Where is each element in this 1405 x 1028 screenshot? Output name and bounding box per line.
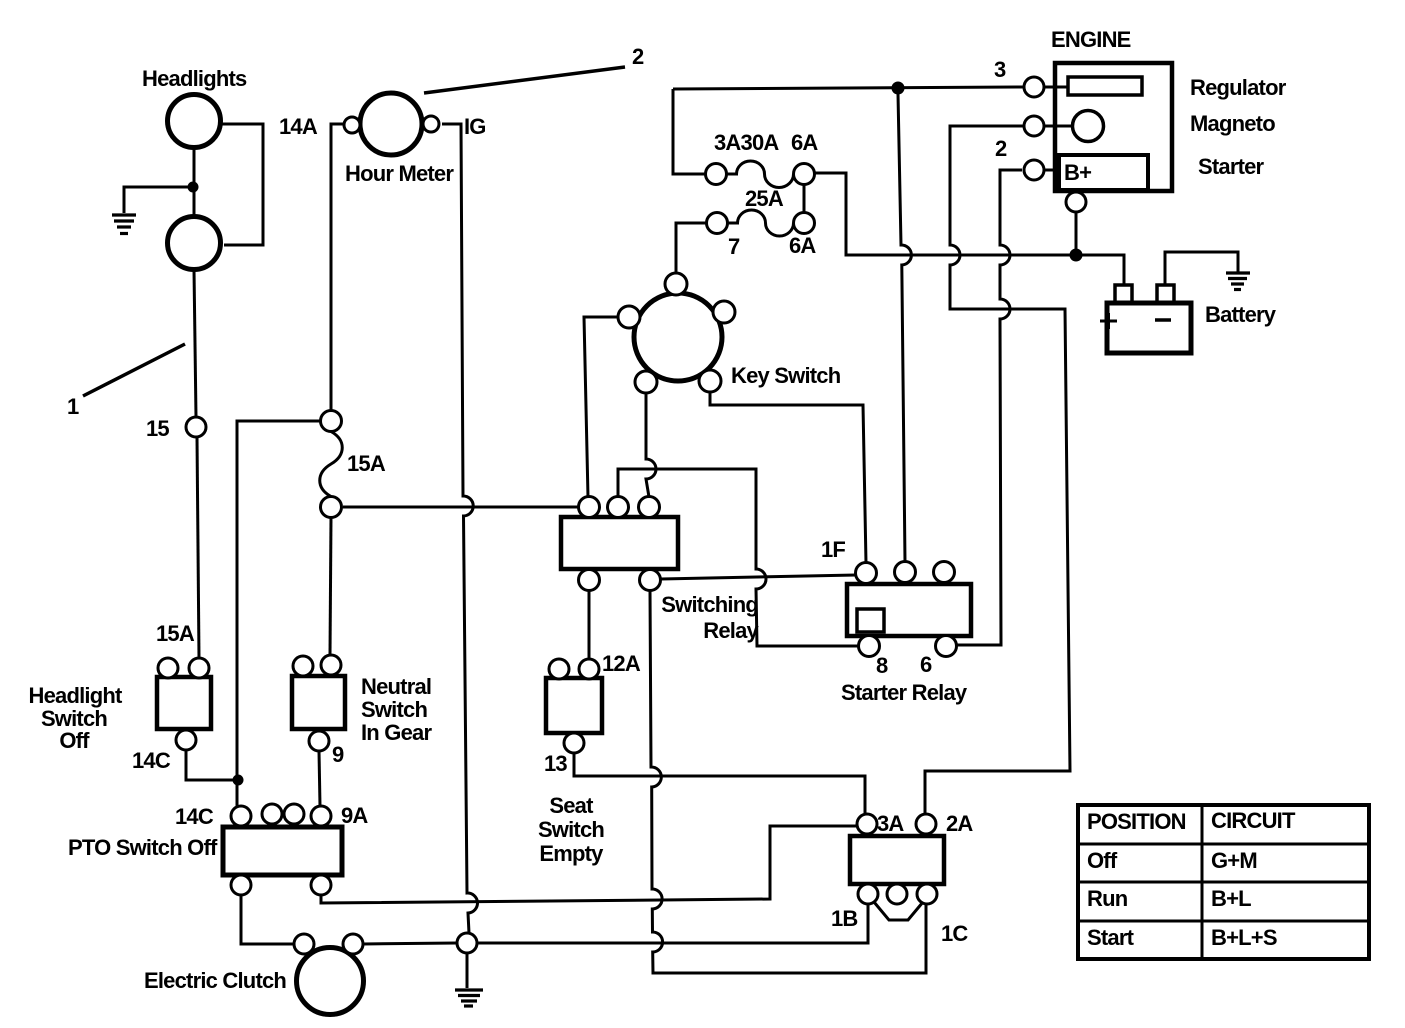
svg-text:6A: 6A <box>789 233 816 258</box>
hour meter M1 <box>360 93 422 155</box>
wire headlamp loop <box>222 124 263 245</box>
svg-text:ENGINE: ENGINE <box>1051 27 1131 52</box>
wire neutral 9 to PTO 9A <box>319 751 320 806</box>
node headlamp ground junction <box>188 182 199 193</box>
wire fuse 15A to neutral switch <box>330 517 331 655</box>
ground battery <box>1226 273 1250 290</box>
node bus 3 junction <box>892 82 905 95</box>
wire 15A fuse to switching relay <box>343 506 578 509</box>
wire key switch lower-left to switching relay (hops y469) <box>646 393 656 497</box>
svg-text:PTO Switch Off: PTO Switch Off <box>68 835 218 860</box>
svg-text:Electric Clutch: Electric Clutch <box>144 968 286 993</box>
svg-text:In Gear: In Gear <box>361 720 432 745</box>
svg-text:9A: 9A <box>341 803 368 828</box>
svg-text:7: 7 <box>728 234 740 259</box>
wire junction 3 to starter relay (hops y255) <box>898 94 911 562</box>
svg-text:Regulator: Regulator <box>1190 75 1287 100</box>
solenoid K3 <box>850 836 944 884</box>
svg-text:IG: IG <box>464 114 486 139</box>
svg-text:14C: 14C <box>132 748 171 773</box>
node 14C junction <box>233 775 244 786</box>
wire switching relay mid to starter relay 8 (hops y579) <box>618 469 859 646</box>
electric clutch <box>297 948 364 1015</box>
wire to ground <box>124 187 193 213</box>
svg-text:1C: 1C <box>941 921 968 946</box>
switching relay K1 <box>561 517 678 569</box>
svg-text:6A: 6A <box>791 130 818 155</box>
svg-text:2: 2 <box>995 136 1007 161</box>
wire magneto 2 to solenoid 2A (hops y255) <box>925 126 1070 814</box>
regulator rect <box>1068 77 1142 95</box>
wire hour meter 14A down <box>331 124 345 411</box>
engine box <box>1055 63 1172 191</box>
callout line 1 <box>83 344 185 396</box>
svg-text:3A: 3A <box>877 811 904 836</box>
svg-text:Relay: Relay <box>703 618 759 643</box>
svg-text:6: 6 <box>920 652 932 677</box>
seat switch <box>546 678 602 733</box>
table <box>1078 805 1369 959</box>
battery minus mark <box>1155 318 1171 322</box>
svg-text:Switch: Switch <box>361 697 427 722</box>
wire key switch lower-right to 1F <box>710 392 866 563</box>
svg-text:Starter: Starter <box>1198 154 1265 179</box>
svg-text:Off: Off <box>1087 848 1118 873</box>
solenoid V bracket <box>874 902 923 920</box>
svg-text:B+L+S: B+L+S <box>1211 925 1277 950</box>
battery box <box>1107 303 1191 353</box>
svg-text:Battery: Battery <box>1205 302 1277 327</box>
fuse F1 3A/30A <box>706 164 727 185</box>
svg-text:Seat: Seat <box>549 793 594 818</box>
svg-text:Off: Off <box>59 728 90 753</box>
wire 6A to battery bus y255 <box>815 173 1124 285</box>
svg-text:13: 13 <box>544 751 567 776</box>
engine terminals <box>1024 77 1044 97</box>
svg-text:Run: Run <box>1087 886 1128 911</box>
engine terminal stubs <box>1044 87 1072 170</box>
svg-text:Empty: Empty <box>539 841 604 866</box>
svg-text:15A: 15A <box>347 451 386 476</box>
wire seat 13 to solenoid 3A <box>574 753 865 814</box>
svg-text:15: 15 <box>146 416 169 441</box>
wire battery negative to ground <box>1165 252 1238 285</box>
PTO switch <box>223 827 342 875</box>
svg-text:G+M: G+M <box>1211 848 1257 873</box>
headlamp L1 <box>168 95 221 148</box>
wire node to ground <box>466 953 469 988</box>
wire clutch to ground node <box>363 943 457 944</box>
fuse F3 15A <box>321 411 342 432</box>
wire bus to engine terminal 3 <box>673 87 1024 89</box>
wire headlight switch 14C to junction <box>186 750 233 780</box>
svg-text:25A: 25A <box>745 186 784 211</box>
ground bottom center <box>455 990 483 1006</box>
wire IG line (hops y506 and y904) <box>442 124 478 933</box>
svg-text:2A: 2A <box>946 811 973 836</box>
node battery bus junction <box>1070 249 1083 262</box>
svg-text:CIRCUIT: CIRCUIT <box>1211 808 1296 833</box>
magneto circle <box>1073 111 1104 142</box>
wire engine bottom terminal to bus <box>1075 212 1078 252</box>
starter relay K2 <box>847 584 971 636</box>
svg-text:Starter Relay: Starter Relay <box>841 680 968 705</box>
svg-text:9: 9 <box>332 742 344 767</box>
wire switching relay BR down to 1C (hops y776 y899 y942) <box>650 590 926 973</box>
wire PTO BR to solenoid 3A (hopped by x468 x652) <box>321 826 857 903</box>
neutral switch <box>292 676 345 729</box>
wire key switch upper-left to switching relay <box>584 317 620 497</box>
wire fuse F2 left down to key switch <box>676 223 706 273</box>
wire 15A branch to PTO <box>237 421 322 806</box>
battery plus mark <box>1100 313 1117 329</box>
svg-text:Neutral: Neutral <box>361 674 431 699</box>
svg-text:POSITION: POSITION <box>1087 809 1186 834</box>
svg-text:Magneto: Magneto <box>1190 111 1275 136</box>
svg-text:Headlight: Headlight <box>28 683 122 708</box>
wire between headlamps <box>193 148 196 217</box>
svg-text:3A30A: 3A30A <box>714 130 779 155</box>
wire fuse interconnect 6A <box>803 185 806 213</box>
svg-text:Key Switch: Key Switch <box>731 363 841 388</box>
svg-text:1B: 1B <box>831 906 858 931</box>
wire PTO BL to clutch <box>241 895 294 944</box>
connector 15 <box>186 417 206 437</box>
headlamp L2 <box>168 217 221 270</box>
callout line 2 <box>424 67 625 93</box>
svg-text:14A: 14A <box>279 114 318 139</box>
fuse F2 25A <box>707 213 728 234</box>
svg-text:B+: B+ <box>1064 160 1091 185</box>
ground node connector <box>457 933 477 953</box>
key switch S1 <box>634 293 722 381</box>
svg-text:3: 3 <box>994 57 1006 82</box>
wire B+ to starter relay 6 (hops y255 and y309) <box>956 170 1022 645</box>
battery terminals <box>1115 285 1132 303</box>
svg-text:Headlights: Headlights <box>142 66 247 91</box>
wire fuse F1 left up to bus 3 <box>673 89 706 174</box>
svg-text:Switch: Switch <box>538 817 604 842</box>
svg-text:1: 1 <box>67 394 79 419</box>
svg-text:12A: 12A <box>602 651 641 676</box>
svg-text:15A: 15A <box>156 621 195 646</box>
svg-text:1F: 1F <box>821 537 845 562</box>
B+ box <box>1059 155 1148 190</box>
svg-text:Hour Meter: Hour Meter <box>345 161 454 186</box>
svg-text:Switching: Switching <box>661 592 758 617</box>
svg-text:B+L: B+L <box>1211 886 1251 911</box>
wire switching relay BR to starter relay 1F <box>661 575 856 579</box>
wire node to solenoid 1B <box>477 904 868 943</box>
svg-text:2: 2 <box>632 44 644 69</box>
wire connector 15 to headlight switch <box>197 437 199 658</box>
svg-text:Start: Start <box>1087 925 1135 950</box>
ground headlights <box>112 215 136 234</box>
headlight switch <box>157 677 211 729</box>
svg-text:8: 8 <box>876 653 888 678</box>
wire switching relay BL to seat switch <box>588 590 591 659</box>
svg-text:14C: 14C <box>175 804 214 829</box>
wire headlamp to connector 15 <box>194 270 196 417</box>
